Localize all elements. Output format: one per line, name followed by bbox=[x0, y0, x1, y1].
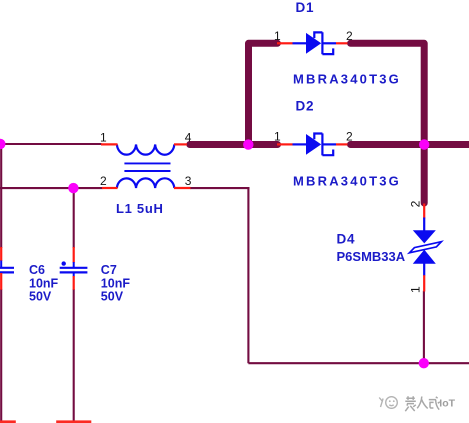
pin stub: D2 pin 1 bbox=[277, 143, 293, 145]
svg-text:1: 1 bbox=[409, 286, 423, 293]
C7 top lead blue bbox=[73, 262, 75, 267]
wire: lower rail left segment to L1 pin 2 bbox=[0, 187, 103, 189]
D2 schottky cathode bar bbox=[314, 133, 333, 155]
svg-text:2: 2 bbox=[409, 200, 423, 207]
TVS diode D4 bbox=[409, 204, 441, 292]
svg-text:D1: D1 bbox=[296, 0, 315, 15]
D1 schottky cathode bar bbox=[314, 32, 333, 54]
svg-text:1: 1 bbox=[274, 130, 281, 144]
pin stub: D1 pin 2 bbox=[336, 42, 348, 44]
D2 anode lead bbox=[293, 143, 307, 145]
ground symbol left (C6) bbox=[0, 420, 16, 423]
svg-text:50V: 50V bbox=[29, 289, 52, 303]
svg-text:C7: C7 bbox=[101, 263, 117, 277]
D4 bottom lead bbox=[423, 263, 425, 276]
svg-text:D4: D4 bbox=[337, 231, 356, 246]
D2 cathode lead bbox=[324, 143, 337, 145]
D1 triangle bbox=[306, 33, 321, 54]
pin stub: L1 pin 2 bbox=[102, 187, 118, 189]
pin stub: L1 pin 4 bbox=[174, 143, 187, 145]
wire: C7 branch vertical from lower rail bbox=[73, 188, 75, 248]
inductor L1 top winding (pins 1-4) bbox=[117, 144, 174, 154]
junction dot: left edge top rail bbox=[0, 139, 6, 149]
svg-text:4: 4 bbox=[185, 130, 192, 144]
diode D1 (schottky) bbox=[277, 32, 348, 54]
pin stub: C7 top bbox=[73, 247, 75, 263]
svg-text:D2: D2 bbox=[296, 99, 315, 114]
capacitor C7 bbox=[60, 247, 88, 290]
inductor L1 core lines bbox=[124, 163, 170, 171]
svg-text:2: 2 bbox=[346, 130, 353, 144]
svg-text:C6: C6 bbox=[29, 263, 45, 277]
svg-text:1: 1 bbox=[100, 130, 107, 144]
svg-text:2: 2 bbox=[346, 29, 353, 43]
watermark text 嵌入式IoT (approximated glyphs) bbox=[405, 396, 440, 411]
svg-text:3: 3 bbox=[185, 174, 192, 188]
diode D2 (schottky) bbox=[277, 133, 348, 155]
pin stub: D4 pin 2 bbox=[423, 204, 425, 219]
bus: thick mid rail from D2 cathode to right edge bbox=[351, 141, 469, 148]
bus: thick top-left corner segment (D1 anode branch) bbox=[249, 43, 278, 144]
wire: C6 branch vertical from top rail bbox=[0, 144, 2, 248]
svg-text:2: 2 bbox=[100, 174, 107, 188]
wire: L1 pin 3 horizontal to corner bbox=[190, 187, 250, 189]
junction dot: C7 tap on lower rail bbox=[68, 183, 78, 193]
C6 top lead blue bbox=[0, 261, 2, 268]
wire: vertical from pin3 corner down bbox=[247, 188, 249, 363]
wire: C7 lower vertical to ground bbox=[73, 289, 75, 421]
pin stub: C6 bottom bbox=[0, 273, 2, 290]
wire: C6 lower vertical to ground bbox=[0, 289, 2, 421]
svg-text:1: 1 bbox=[274, 29, 281, 43]
svg-text:P6SMB33A: P6SMB33A bbox=[337, 249, 406, 264]
svg-text:L1 5uH: L1 5uH bbox=[116, 201, 164, 216]
bus: thick top-right segment (D1 cathode to right vertical) bbox=[351, 43, 425, 203]
junction dot: D4 on bottom rail bbox=[419, 358, 429, 368]
wire: bottom return rail bbox=[248, 362, 469, 364]
junction dot: left bus joins mid rail bbox=[243, 139, 253, 149]
D2 triangle bbox=[306, 134, 321, 155]
bus: thick mid rail from L1 pin 4 to D2 anode bbox=[190, 141, 278, 148]
wire: D4 anode down to bottom rail bbox=[423, 291, 425, 363]
svg-text:50V: 50V bbox=[101, 289, 124, 303]
D4 top triangle bbox=[413, 230, 436, 243]
pin stub: C7 bottom bbox=[73, 276, 75, 290]
C7 polarity dot bbox=[62, 261, 66, 265]
pin stub: L1 pin 1 bbox=[101, 143, 118, 145]
D4 bottom triangle bbox=[413, 250, 436, 264]
watermark logo icon bbox=[379, 397, 397, 409]
D4 top lead bbox=[423, 218, 425, 232]
svg-text:MBRA340T3G: MBRA340T3G bbox=[293, 173, 401, 188]
junction dot: right bus joins mid rail bbox=[419, 139, 429, 149]
pin stub: C6 top bbox=[0, 247, 2, 261]
D1 anode lead bbox=[293, 42, 307, 44]
pin stub: L1 pin 3 bbox=[174, 187, 191, 189]
C7 plates bbox=[60, 268, 88, 273]
pin stub: D1 pin 1 bbox=[277, 42, 293, 44]
pin stub: D4 pin 1 bbox=[423, 275, 425, 291]
C6 plates bbox=[0, 268, 14, 273]
pin stub: D2 pin 2 bbox=[336, 143, 348, 145]
wire: top rail left segment to L1 pin 1 bbox=[0, 143, 102, 145]
ground symbol right (C7) bbox=[56, 420, 91, 423]
D1 cathode lead bbox=[324, 42, 337, 44]
svg-text:IoT: IoT bbox=[439, 398, 455, 410]
D4 zener bar parallelogram bbox=[409, 242, 441, 253]
capacitor C6 bbox=[0, 247, 14, 290]
svg-text:MBRA340T3G: MBRA340T3G bbox=[293, 72, 401, 87]
inductor L1 bottom winding (pins 2-3) bbox=[117, 178, 174, 188]
C7 bottom lead blue bbox=[73, 273, 75, 277]
